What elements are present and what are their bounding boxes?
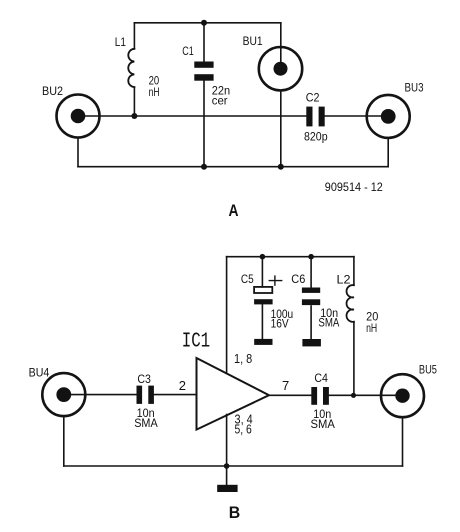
capacitor C5	[254, 257, 273, 339]
wire: circuit B top rail	[227, 256, 354, 258]
wire: C4 to BU5	[329, 394, 403, 396]
node: C1 bottom rail junction	[201, 164, 207, 170]
svg-text:nH: nH	[149, 85, 160, 99]
node: ground junction	[224, 463, 230, 469]
capacitor C1	[194, 23, 213, 167]
polarity + of C5	[269, 276, 281, 285]
svg-text:C2: C2	[306, 91, 320, 105]
svg-text:BU5: BU5	[419, 363, 437, 377]
svg-text:16V: 16V	[271, 317, 289, 331]
svg-text:nH: nH	[366, 321, 377, 335]
svg-text:L2: L2	[337, 272, 351, 286]
capacitor C3	[137, 386, 154, 404]
connector BU2	[57, 95, 100, 138]
svg-text:BU3: BU3	[405, 81, 424, 95]
wire: IC1 pins 3,4,5,6 to ground rail	[226, 415, 228, 467]
wire: IC1 pin 7 to C4	[269, 394, 311, 396]
inductor L1	[128, 49, 134, 87]
wire: ground stub	[226, 466, 228, 485]
svg-text:C3: C3	[137, 372, 151, 386]
svg-text:L1: L1	[115, 35, 126, 49]
ground: C6 ground bar	[302, 339, 321, 346]
wire: L1 top stub	[133, 23, 135, 49]
svg-text:C1: C1	[182, 44, 194, 58]
node: C5 top rail junction	[260, 254, 266, 260]
op-amp IC1	[197, 358, 270, 430]
svg-text:1, 8: 1, 8	[234, 351, 252, 366]
svg-text:909514 - 12: 909514 - 12	[325, 180, 383, 194]
wire: circuit A top rail	[134, 22, 280, 24]
svg-text:820p: 820p	[304, 130, 328, 144]
svg-text:C4: C4	[314, 371, 328, 385]
svg-text:B: B	[229, 504, 241, 522]
wire: mid rail C2 to BU3	[325, 115, 389, 117]
svg-text:C6: C6	[291, 272, 305, 286]
node: C6 top rail junction	[308, 254, 314, 260]
svg-text:SMA: SMA	[311, 417, 335, 431]
svg-text:SMA: SMA	[318, 316, 339, 330]
wire: BU2 shield stub	[77, 138, 79, 167]
wire: supply rail to IC1 pins 1,8	[226, 257, 228, 373]
wire: BU4 to C3	[64, 394, 137, 396]
svg-text:IC1: IC1	[182, 331, 211, 354]
svg-text:cer: cer	[212, 94, 228, 108]
node: BU1 bottom rail junction	[278, 164, 284, 170]
connector BU5	[381, 374, 424, 466]
wire: mid rail BU2 to C2	[78, 115, 306, 117]
svg-text:7: 7	[282, 378, 289, 393]
wire: L1 bottom stub	[133, 87, 135, 116]
capacitor C6	[302, 257, 320, 339]
svg-text:BU2: BU2	[42, 84, 63, 98]
wire: circuit B bottom rail	[64, 465, 403, 467]
node: C1 top rail junction	[201, 20, 207, 26]
svg-text:A: A	[229, 202, 239, 220]
svg-text:2: 2	[179, 378, 186, 393]
capacitor C2	[306, 107, 324, 127]
svg-text:BU1: BU1	[243, 34, 263, 48]
connector BU1	[259, 23, 302, 167]
wire: circuit A bottom rail	[78, 166, 388, 168]
capacitor C4	[311, 387, 329, 405]
svg-text:C5: C5	[241, 272, 254, 286]
connector BU3	[367, 95, 410, 167]
node: L1/mid-rail junction	[131, 113, 137, 119]
wire: C3 to IC1 pin 2	[154, 394, 197, 396]
inductor L2	[347, 257, 354, 396]
svg-text:5, 6: 5, 6	[235, 422, 252, 437]
ground	[217, 485, 237, 492]
connector BU4	[42, 373, 85, 466]
svg-text:SMA: SMA	[134, 416, 158, 430]
svg-text:BU4: BU4	[29, 366, 50, 380]
ground: C5 ground bar	[254, 339, 272, 345]
node: L2/output junction	[351, 393, 356, 398]
